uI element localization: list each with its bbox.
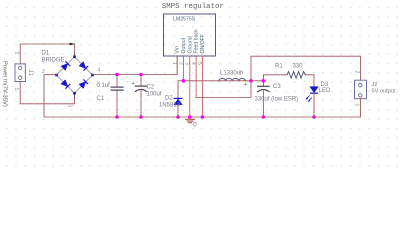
junction dot C2 bottom	[139, 115, 143, 119]
svg-text:4: 4	[98, 68, 101, 74]
junction dot D2 ground	[176, 115, 180, 119]
wire to D2 cathode	[177, 81, 179, 98]
bridge vertex pads	[55, 56, 94, 95]
svg-text:2: 2	[14, 52, 20, 55]
junction dot C1 bottom	[115, 115, 119, 119]
svg-text:5: 5	[196, 62, 202, 65]
junction dot pin3 ground	[188, 115, 192, 119]
svg-text:2: 2	[177, 62, 183, 65]
svg-text:1: 1	[171, 62, 177, 65]
svg-text:3: 3	[184, 62, 190, 65]
svg-text:C3: C3	[273, 84, 281, 90]
svg-text:J1: J1	[27, 70, 33, 77]
junction dot C3 ground	[262, 115, 266, 119]
svg-text:0: 0	[193, 123, 197, 129]
bridge diode bottom-left	[61, 80, 70, 89]
junction dot C1 top	[115, 73, 119, 77]
svg-text:R1: R1	[275, 64, 283, 70]
svg-text:J2: J2	[372, 82, 378, 88]
svg-text:1N5819: 1N5819	[159, 103, 181, 109]
svg-text:4: 4	[190, 62, 196, 65]
bridge rectifier D1	[57, 57, 93, 93]
wire D2 anode to ground	[177, 105, 179, 117]
wire C2 top lead	[140, 75, 142, 86]
IC U1 LM2575S box	[164, 14, 216, 56]
svg-text:330uf (low ESR): 330uf (low ESR)	[255, 97, 299, 103]
resistor R1	[287, 72, 305, 78]
wire J1 pin2 to bridge top	[20, 44, 74, 64]
wire C3 top lead	[262, 81, 264, 86]
pin 1 stub	[176, 56, 178, 75]
svg-text:Ground: Ground	[187, 36, 193, 53]
svg-text:C1: C1	[97, 96, 105, 102]
pin 4 stub	[195, 56, 197, 98]
LED D3	[306, 87, 318, 102]
junction dot D3 ground	[312, 115, 316, 119]
wire output node to J2	[251, 56, 361, 81]
wire J2 pin1 to ground	[360, 99, 362, 117]
svg-text:D1: D1	[42, 51, 50, 57]
wire output node to C3/R1	[251, 80, 263, 82]
svg-text:+: +	[132, 81, 135, 87]
connector J1	[15, 64, 25, 82]
input rail from bridge to U1 pin1	[93, 56, 178, 75]
capacitor C2	[135, 85, 146, 87]
junction dot output node	[249, 79, 253, 83]
capacitor C3	[258, 85, 270, 87]
wire C3 bottom lead	[262, 91, 264, 117]
wire bridge left to ground rail	[44, 75, 57, 117]
LED rays	[307, 96, 310, 99]
svg-text:Power In(7V-35V): Power In(7V-35V)	[2, 61, 8, 107]
junction dot C3 node	[262, 79, 266, 83]
junction dot pin2	[182, 79, 186, 83]
junction dot pin5 ground	[201, 115, 205, 119]
bridge top lead	[74, 53, 76, 57]
connector J2	[355, 80, 367, 99]
pin 3 stub	[189, 56, 191, 117]
svg-text:3: 3	[67, 105, 73, 108]
ground symbol	[186, 119, 195, 122]
svg-text:+: +	[244, 82, 247, 88]
svg-text:5V output: 5V output	[372, 88, 396, 94]
svg-text:Vin: Vin	[175, 46, 181, 54]
svg-text:Feed back: Feed back	[194, 29, 200, 54]
wire J1 pin1 to bridge bottom	[20, 82, 74, 104]
bridge bottom lead	[74, 93, 76, 97]
svg-text:C2: C2	[147, 85, 155, 91]
svg-text:SMPS regulator: SMPS regulator	[162, 3, 224, 11]
wire C1 bottom lead	[116, 91, 118, 118]
wire output node horizontal	[178, 80, 251, 82]
svg-text:1: 1	[13, 88, 19, 91]
wire R1 to D3	[305, 75, 314, 87]
svg-text:D2: D2	[165, 96, 173, 102]
svg-text:BRIDGE: BRIDGE	[42, 58, 65, 64]
ground rail	[44, 116, 361, 118]
inductor L1	[219, 78, 245, 80]
junction dot C2 top	[139, 73, 143, 77]
bridge diode bottom-right	[79, 80, 88, 89]
bridge diode top-left	[61, 62, 70, 71]
wire to R1	[263, 75, 287, 81]
wire D3 cathode to ground	[313, 93, 315, 117]
feedback wire pin4	[196, 81, 251, 98]
capacitor C1	[111, 86, 123, 88]
svg-text:0.1uf: 0.1uf	[97, 83, 111, 89]
svg-text:1: 1	[354, 104, 360, 107]
svg-text:330: 330	[293, 64, 304, 70]
svg-text:LED: LED	[319, 88, 331, 94]
wire C1 top lead	[116, 75, 118, 87]
arrow at wire corner	[70, 43, 76, 46]
bridge diode top-right	[79, 62, 88, 71]
wire C2 bottom lead	[140, 91, 142, 117]
pin 5 stub	[201, 56, 203, 117]
svg-text:2: 2	[354, 71, 360, 74]
pin 2 stub	[183, 56, 185, 81]
svg-text:ON/OFF: ON/OFF	[200, 34, 206, 54]
svg-text:2: 2	[42, 69, 45, 75]
svg-text:LM2575S: LM2575S	[173, 17, 196, 23]
svg-text:L1330uh: L1330uh	[220, 71, 243, 77]
svg-text:100uf: 100uf	[147, 92, 162, 98]
svg-text:Output: Output	[181, 37, 187, 53]
diode D2 1N5819	[174, 98, 182, 104]
